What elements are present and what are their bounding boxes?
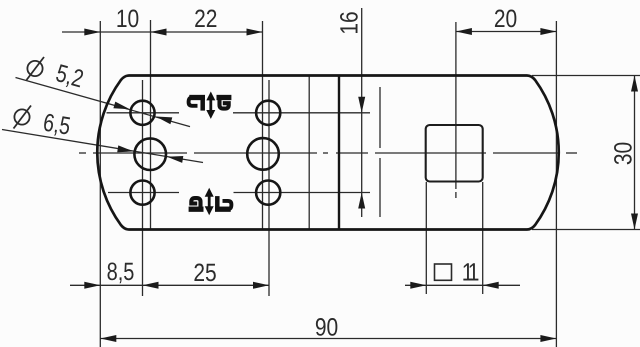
svg-text:30: 30 (610, 142, 638, 165)
svg-text:16: 16 (336, 11, 364, 34)
svg-text:90: 90 (315, 314, 338, 342)
svg-text:6,5: 6,5 (41, 109, 72, 141)
svg-text:25: 25 (193, 259, 216, 287)
svg-text:22: 22 (194, 5, 217, 33)
svg-text:20: 20 (494, 5, 517, 33)
svg-text:10: 10 (116, 5, 139, 33)
svg-text:8,5: 8,5 (107, 258, 135, 286)
